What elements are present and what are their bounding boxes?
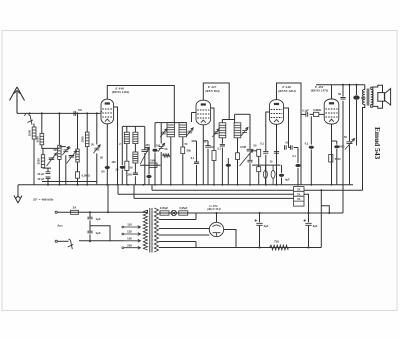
svg-text:4µF: 4µF: [264, 224, 269, 228]
capacitor C19: [247, 160, 252, 162]
trimmer capacitor: [63, 150, 68, 152]
wire: [134, 144, 136, 152]
wire: [154, 123, 156, 148]
wire: [58, 113, 60, 145]
junction: [107, 211, 109, 213]
wire: [321, 206, 329, 213]
resistor R15: [257, 149, 261, 156]
rectifier tube V5 G354: [209, 222, 223, 236]
wire: [96, 113, 98, 144]
wire: [77, 162, 79, 172]
svg-text:220: 220: [127, 243, 132, 247]
wire: [126, 144, 128, 162]
switch S1 waveband: [27, 115, 33, 125]
wire: [259, 225, 261, 247]
wire: [121, 170, 123, 185]
resistor R8 grid leak: [314, 112, 319, 116]
wire: [192, 140, 197, 142]
wire grid tube1: [100, 112, 102, 114]
wire: [148, 148, 150, 175]
junction: [320, 189, 322, 191]
wire: [160, 123, 162, 144]
svg-text:0,1: 0,1: [191, 156, 195, 160]
svg-text:40 pF: 40 pF: [37, 177, 44, 181]
wire: [294, 147, 298, 149]
variable capacitor C9 osc tuning: [144, 126, 146, 149]
capacitor C16 cathode bypass: [203, 140, 208, 142]
wire speaker return: [363, 105, 365, 191]
svg-text:5000: 5000: [335, 157, 341, 161]
wire: [371, 87, 373, 89]
svg-text:5000: 5000: [339, 145, 345, 149]
wire padder line: [42, 181, 97, 183]
svg-text:0,1: 0,1: [217, 147, 221, 151]
svg-text:0,1: 0,1: [292, 154, 296, 158]
wire plate V4: [331, 85, 333, 99]
wire main ground bus: [18, 184, 353, 186]
junction: [29, 112, 31, 114]
capacitor box C32 0.05uF: [160, 211, 169, 215]
coil L1: [32, 127, 36, 139]
capacitor: [141, 150, 148, 152]
variable capacitor C5 tuning gang b: [69, 156, 75, 158]
wire cathode V4: [331, 124, 333, 185]
capacitor: [205, 146, 210, 148]
capacitor box C33 0.05uF: [179, 211, 188, 215]
resistor: [149, 163, 157, 167]
electrolytic E2: [271, 165, 275, 185]
wire mains top: [57, 211, 144, 213]
capacitor C3 40pF: [46, 177, 51, 179]
capacitor C27: [309, 146, 314, 149]
wire: [265, 155, 267, 185]
coil L6: [85, 132, 89, 147]
svg-text:110: 110: [127, 223, 132, 227]
ground symbol: [14, 185, 22, 203]
svg-text:TA: TA: [297, 187, 300, 191]
wire: [170, 137, 172, 185]
resistor R12 avc: [140, 164, 161, 166]
wire: [154, 153, 156, 185]
wire: [221, 120, 223, 123]
wire: [65, 155, 67, 185]
pilot lamp LP1: [171, 210, 176, 215]
capacitor C10 250pF: [133, 173, 138, 175]
resistor R11 750: [270, 245, 289, 250]
wire: [33, 124, 35, 128]
bus junction dots: [59, 184, 61, 186]
svg-text:100: 100: [145, 143, 150, 147]
wire: [159, 247, 260, 249]
wire antenna bus: [17, 112, 101, 114]
wire: [310, 116, 312, 144]
wire screen V1: [114, 107, 118, 185]
speaker LS cone: [385, 89, 391, 105]
junction: [77, 184, 79, 186]
capacitor: [247, 149, 254, 151]
wire: [252, 150, 257, 152]
svg-text:750: 750: [274, 239, 279, 243]
wire: [159, 234, 210, 236]
svg-text:1µF: 1µF: [96, 231, 101, 235]
wire: [297, 168, 299, 185]
resistor R4: [181, 147, 185, 154]
wire: [77, 178, 79, 185]
trimmer capacitor: [187, 131, 192, 133]
junction: [349, 84, 351, 86]
wire: [336, 149, 338, 185]
trimmer capacitor: [242, 131, 247, 133]
wire: [41, 113, 43, 133]
junction: [328, 212, 330, 214]
svg-text:(REN 904): (REN 904): [205, 89, 219, 93]
wire grid V3: [266, 112, 270, 151]
resistor R9 cathode: [329, 155, 333, 163]
wire: [42, 148, 44, 154]
capacitor C31 1uF: [87, 231, 92, 233]
transformer T3 core: [150, 208, 152, 253]
wire: [207, 141, 209, 146]
wire: [182, 137, 184, 147]
svg-text:125: 125: [127, 230, 132, 234]
terminal mains 2: [55, 240, 57, 242]
junction: [308, 212, 310, 214]
wire: [160, 152, 162, 185]
capacitor C35 4uF +: [305, 223, 311, 225]
capacitor C13: [152, 149, 157, 152]
svg-text:ZF = 468 kHz: ZF = 468 kHz: [32, 198, 54, 202]
svg-text:0,05µF: 0,05µF: [160, 206, 169, 210]
tick antenna terminal: [24, 113, 27, 116]
wire: [126, 126, 128, 132]
wire: [196, 141, 198, 162]
wire plate V1 to IF1: [107, 86, 174, 123]
wire: [249, 153, 251, 160]
svg-text:(RGN 354): (RGN 354): [207, 207, 220, 211]
wire: [191, 113, 193, 123]
capacitor C22 4uF: [281, 165, 283, 173]
wire: [258, 156, 260, 166]
svg-text:150: 150: [127, 236, 132, 240]
wire: [222, 119, 234, 121]
wire: [58, 159, 60, 184]
junction: [47, 184, 49, 186]
electrolytic E1: [263, 165, 267, 185]
speaker LS frame: [373, 85, 383, 108]
wire: [126, 170, 128, 184]
tube V3 E446: [270, 100, 284, 125]
svg-text:0,1µF: 0,1µF: [302, 109, 309, 113]
transformer T3 primary: [143, 210, 147, 250]
wire: [304, 194, 309, 213]
coil L5: [76, 149, 79, 162]
capacitor C15: [194, 162, 199, 164]
svg-text:Emud 543: Emud 543: [373, 127, 382, 160]
wire: [134, 163, 136, 173]
wire: [308, 225, 310, 247]
wire osc top: [122, 125, 145, 127]
svg-text:1000: 1000: [81, 136, 85, 143]
potentiometer P1 volume: [249, 114, 251, 149]
capacitor C11: [146, 175, 151, 178]
wire chassis drop: [107, 185, 109, 213]
wire plate V3: [277, 83, 302, 114]
svg-text:0,1: 0,1: [260, 142, 264, 146]
wire: [159, 228, 210, 230]
wire: [159, 241, 196, 243]
antenna A1: [10, 87, 25, 113]
svg-text:30k: 30k: [187, 149, 192, 153]
resistor R16: [257, 167, 261, 172]
svg-text:(RENS 1374): (RENS 1374): [311, 88, 329, 92]
capacitor C21: [263, 152, 268, 154]
svg-text:4µF: 4µF: [285, 178, 290, 182]
trimmer capacitor: [159, 147, 164, 149]
wire: [117, 185, 119, 195]
wire: [301, 113, 306, 115]
wire: [310, 113, 314, 115]
wire: [89, 220, 91, 230]
wire grid V2: [192, 112, 197, 114]
tube V4 E452: [324, 99, 339, 124]
wires terminal box right: [304, 189, 363, 191]
wire: [47, 179, 49, 185]
wire to volume: [235, 113, 250, 115]
wire screen V2: [211, 108, 214, 151]
svg-text:1000: 1000: [27, 129, 31, 136]
wire detector load: [252, 164, 280, 166]
junction: [58, 112, 60, 114]
wire: [310, 150, 312, 185]
capacitor C24: [291, 145, 293, 149]
wire: [281, 178, 283, 185]
wire: [221, 148, 223, 185]
resistor R3: [125, 161, 129, 170]
trimmer capacitor: [161, 132, 166, 134]
coil L11 IF1 secondary: [179, 123, 187, 137]
svg-text:Aus: Aus: [57, 224, 63, 228]
wire: [237, 160, 239, 185]
junction: [342, 84, 344, 86]
junction: [77, 112, 79, 114]
wire: [159, 219, 196, 221]
coil L9 osc tapped: [133, 152, 138, 163]
wire: [300, 114, 302, 184]
wire: [89, 234, 91, 241]
wire: [289, 147, 291, 149]
coil L12 IF2 primary: [219, 123, 226, 138]
junction: [259, 247, 261, 249]
wire mains bottom: [57, 240, 69, 242]
wire: [371, 105, 373, 108]
capacitor C18: [226, 164, 231, 167]
junction: [308, 247, 310, 249]
capacitor C1 series antenna: [74, 111, 76, 116]
wire: [319, 113, 324, 115]
wire: [90, 226, 110, 242]
wire cathode V3: [276, 124, 278, 185]
wire: [79, 240, 124, 242]
wire: [234, 114, 236, 123]
svg-text:0,5M: 0,5M: [240, 145, 246, 149]
wire: [336, 141, 338, 145]
terminal mains 1: [55, 211, 57, 213]
svg-text:100: 100: [111, 160, 116, 164]
fuse F1 2A: [71, 210, 79, 214]
svg-text:4µF: 4µF: [313, 224, 318, 228]
speaker LS magnet: [378, 93, 385, 102]
wire: [349, 85, 351, 141]
wire: [195, 242, 197, 248]
transformer T2 secondary: [371, 90, 373, 105]
tap 220V: [124, 246, 141, 249]
svg-text:(RENS 1264): (RENS 1264): [112, 90, 130, 94]
wire cathode V2: [202, 125, 204, 185]
wire: [151, 185, 153, 190]
capacitor C34 4uF +: [256, 223, 262, 225]
wire: [101, 111, 102, 113]
svg-text:50: 50: [78, 108, 82, 112]
svg-text:0,1: 0,1: [305, 142, 309, 146]
wire heater 2: [118, 193, 294, 195]
wire: [86, 113, 88, 132]
wire: [297, 148, 299, 163]
svg-text:0,05µF: 0,05µF: [179, 206, 188, 210]
svg-text:50: 50: [338, 92, 342, 96]
transformer T3 secondary: [154, 208, 158, 252]
wire: [77, 113, 79, 149]
svg-text:0,3MΩ: 0,3MΩ: [313, 108, 321, 112]
resistor R14: [236, 153, 240, 160]
wire: [196, 165, 198, 185]
wire: [308, 213, 310, 222]
wire: [33, 139, 35, 185]
tap 150V: [124, 239, 141, 242]
capacitor C7: [105, 166, 110, 169]
wire screen V3: [284, 108, 289, 148]
wire: [356, 85, 358, 95]
svg-text:5000: 5000: [35, 136, 39, 143]
tap 125V: [124, 233, 141, 236]
wire: [260, 247, 322, 249]
wire: [59, 146, 65, 148]
junction: [41, 112, 43, 114]
capacitor C25: [295, 164, 300, 167]
wire: [96, 153, 98, 184]
wire: [342, 85, 344, 97]
svg-text:0,5MΩ: 0,5MΩ: [82, 174, 91, 178]
coil L8 osc: [133, 132, 138, 143]
wire heater 3: [134, 197, 294, 199]
capacitor C29: [353, 95, 359, 99]
wire: [134, 176, 136, 185]
svg-text:20 pF: 20 pF: [37, 172, 44, 176]
svg-text:2000: 2000: [37, 158, 41, 165]
potentiometer P2 tone: [347, 142, 353, 144]
coil L4: [58, 145, 61, 159]
capacitor C30 1uF: [87, 217, 92, 219]
wire: [145, 147, 149, 149]
coil L7 osc: [124, 132, 129, 143]
wire: [86, 147, 88, 185]
coil L13 IF2 secondary: [234, 123, 241, 138]
electrolytic capacitor: [279, 174, 284, 177]
tap 110V: [124, 226, 141, 229]
wire: [258, 172, 260, 185]
wire: [155, 122, 167, 124]
wire: [349, 145, 351, 185]
capacitor C26 coupling: [306, 112, 308, 117]
coil L2: [40, 134, 44, 145]
trimmer capacitor: [213, 132, 218, 134]
wire: [182, 154, 184, 185]
switch S2 mains: [68, 239, 74, 249]
capacitor C20 cathode: [274, 152, 279, 154]
tube V2 E447: [196, 100, 211, 125]
resistor R2: [75, 172, 79, 178]
coil L10 IF1 primary: [167, 123, 175, 137]
junction: [106, 184, 108, 186]
trimmer capacitor: [94, 148, 99, 150]
capacitor C8: [120, 166, 125, 169]
wire cathode V1: [106, 124, 108, 185]
tube V1 E448: [101, 99, 114, 124]
wire: [221, 138, 223, 144]
capacitor C36 cathode bypass: [332, 140, 337, 142]
wire: [148, 179, 150, 185]
wire: [342, 101, 344, 213]
svg-text:500: 500: [53, 148, 58, 152]
junction: [259, 212, 261, 214]
svg-text:TA: TA: [297, 197, 300, 201]
wire plate bus V4: [316, 84, 365, 86]
wire heater 1: [152, 189, 294, 191]
wire: [237, 138, 239, 153]
wire: [121, 126, 123, 165]
junction: [89, 211, 91, 213]
resistor R5: [212, 151, 216, 161]
wire: [249, 163, 251, 185]
wire: [47, 168, 49, 171]
capacitor C28 50pF: [340, 98, 345, 100]
wire: [195, 213, 197, 220]
wire: [207, 149, 209, 185]
wire filament line: [159, 212, 343, 214]
wire plate V2 to IF2: [203, 83, 229, 120]
coil L3: [41, 155, 44, 168]
junction: [356, 84, 358, 86]
svg-text:250: 250: [127, 173, 132, 177]
wire: [259, 213, 261, 222]
resistor R13: [163, 154, 170, 157]
capacitor C2 20pF: [46, 172, 51, 174]
junction: [216, 212, 218, 214]
junction: [86, 112, 88, 114]
svg-text:100: 100: [156, 144, 161, 148]
wire: [89, 212, 91, 217]
wire: [320, 190, 322, 247]
transformer T2 output primary: [363, 90, 365, 105]
svg-text:1µF: 1µF: [96, 217, 101, 221]
capacitor C23: [285, 145, 287, 149]
wire: [356, 100, 358, 146]
electrolytic capacitor: [334, 145, 339, 148]
wire: [224, 230, 236, 248]
wire: [144, 210, 148, 212]
wire: [134, 126, 136, 132]
wire: [364, 85, 366, 90]
terminal box pickup: [294, 187, 305, 207]
